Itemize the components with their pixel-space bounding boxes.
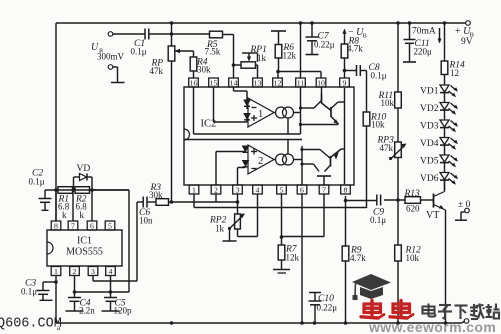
IC2 internal mid wire 2	[184, 139, 302, 141]
resistor R12	[395, 245, 402, 323]
svg-text:VD1: VD1	[420, 87, 439, 97]
wire C6 down to IC1 pin3	[93, 202, 137, 281]
label R13 620	[404, 189, 421, 214]
wire R8 node to IC2 pin9	[344, 71, 346, 79]
label VD5	[420, 157, 439, 167]
svg-text:10k: 10k	[371, 120, 385, 130]
svg-text:Q606.COM: Q606.COM	[0, 317, 62, 332]
label C10 0.22u	[317, 294, 338, 313]
label +UB 9V	[455, 26, 475, 47]
capacitor C6	[137, 197, 156, 208]
transistor Q2 internal	[301, 102, 345, 125]
diode op2 minus input	[238, 161, 249, 186]
wire R5 to IC2 pin14	[223, 35, 234, 79]
diode op2 plus input	[216, 146, 249, 185]
svg-text:VD3: VD3	[420, 122, 439, 132]
node rail IC2 pin6 line	[300, 321, 304, 325]
IC2 internal bus lower	[301, 146, 303, 185]
label -UB	[348, 27, 368, 40]
wire timing caps line	[75, 291, 130, 293]
svg-text:620: 620	[406, 204, 420, 214]
LED VD1	[440, 85, 458, 103]
IC1 pin 1	[51, 267, 61, 283]
node C7 rail	[310, 21, 314, 25]
wire C1 to R5	[149, 33, 210, 35]
svg-text:2.2n: 2.2n	[79, 306, 95, 316]
transistor Q3 internal	[302, 149, 345, 167]
label VD4	[420, 139, 439, 149]
IC1 pin 3	[88, 267, 98, 276]
resistor R14	[441, 61, 448, 85]
IC2 internal bus upper	[300, 87, 302, 134]
capacitor C2	[39, 190, 52, 210]
svg-text:3: 3	[236, 185, 240, 194]
logo char zi	[438, 305, 452, 319]
capacitor C1	[145, 29, 149, 40]
wire C9 to R13	[384, 199, 405, 201]
node pin3 junction	[236, 200, 240, 204]
IC1 pin 7	[68, 190, 78, 230]
label C7 0.22u	[314, 32, 335, 50]
IC2 pin 10	[316, 78, 326, 87]
resistor R7	[278, 237, 285, 269]
IC1 pin 6	[87, 190, 97, 230]
node R12 bottom rail	[396, 321, 400, 325]
IC2 pin 8	[341, 185, 351, 194]
IC1 pin 2	[70, 267, 80, 293]
node C11 rail	[408, 21, 412, 25]
logo char xia	[455, 306, 468, 320]
node IC1 pin1/C3	[54, 280, 58, 284]
node rail RP/R3 vertical	[170, 321, 174, 325]
label C3 0.1u	[21, 279, 37, 297]
node bus lower 1	[300, 148, 303, 151]
resistor R11	[395, 92, 402, 142]
svg-text:2: 2	[73, 267, 77, 276]
label C8 0.1u	[369, 63, 387, 81]
capacitor C9	[377, 195, 381, 206]
potentiometer RP3	[395, 142, 402, 245]
label 70mA with arrow	[412, 27, 442, 44]
label RP2 1k	[209, 216, 227, 234]
svg-text:4.7k: 4.7k	[347, 44, 363, 54]
diode op1 plus input	[214, 87, 251, 122]
arrow -UB	[342, 29, 346, 45]
IC1 pin 5	[105, 221, 115, 230]
wire pin1 down to rail	[55, 282, 57, 323]
svg-text:2: 2	[214, 185, 218, 194]
svg-text:0.1μ: 0.1μ	[371, 71, 387, 81]
LED VD2	[440, 103, 458, 121]
terminal UR input	[108, 32, 113, 37]
svg-text:1k: 1k	[257, 53, 267, 63]
power bar above R6	[271, 30, 286, 32]
wire IC2 pin7 to R7	[282, 194, 325, 237]
svg-text:220μ: 220μ	[414, 47, 433, 57]
transistor VT	[434, 192, 446, 211]
label R9 4.7k	[350, 246, 366, 264]
ground RP2	[223, 229, 237, 242]
diode VD	[74, 174, 93, 191]
node VT emitter rail	[444, 321, 448, 325]
IC2 pin 15	[209, 78, 219, 87]
svg-text:VD5: VD5	[420, 157, 439, 167]
RP2 wiper	[228, 214, 245, 231]
IC2 pin 4	[253, 185, 263, 194]
svg-text:2: 2	[258, 156, 263, 167]
label VD1	[420, 87, 439, 97]
potentiometer RP1	[234, 62, 258, 78]
capacitor C11	[403, 23, 416, 62]
label R3 30k	[149, 183, 163, 200]
label VD3	[420, 122, 439, 132]
wire rail to R14	[444, 23, 446, 61]
label R1 6.8k	[58, 195, 70, 221]
label R12 10k	[405, 246, 422, 264]
terminal input ground side	[108, 65, 113, 70]
label VD6	[420, 174, 439, 184]
label VD2	[420, 104, 439, 114]
svg-text:8: 8	[344, 185, 348, 194]
logo url www.eeworm.com	[368, 319, 496, 334]
IC2 pin 1	[189, 185, 199, 194]
capacitor C3	[37, 282, 57, 300]
svg-text:1: 1	[192, 185, 196, 194]
node R14 rail	[443, 21, 447, 25]
node RP top on rail	[170, 21, 174, 25]
IC2 pin 12	[273, 78, 283, 87]
resistor R3	[156, 199, 169, 206]
node C4 top	[73, 290, 77, 294]
RP3 wiper	[389, 144, 407, 161]
IC2 pin 5	[277, 185, 287, 194]
svg-text:k: k	[62, 210, 67, 220]
wire left frame from +UB rail to node A	[55, 23, 57, 221]
text Q606.COM	[0, 317, 62, 333]
RP wiper arrow	[175, 49, 194, 53]
wire top +UB supply rail	[56, 22, 466, 24]
node R8/C8/pin9	[343, 69, 347, 73]
svg-text:13: 13	[254, 78, 262, 87]
label R2 6.8k	[75, 195, 87, 221]
label R8 4.7k	[347, 37, 363, 54]
label R7 12k	[285, 245, 300, 263]
resistor R13	[405, 197, 421, 204]
node R1/R2	[72, 188, 76, 192]
wire IC2 pin2 stub	[215, 194, 217, 202]
svg-text:70mA: 70mA	[412, 27, 436, 37]
svg-text:0.1μ: 0.1μ	[29, 177, 45, 187]
wire R13 to VT base	[421, 199, 434, 201]
node junction C1 line / RP	[170, 32, 174, 36]
IC2 pin 2	[211, 185, 221, 194]
svg-text:12: 12	[274, 78, 282, 87]
label RP3 47k	[377, 136, 395, 154]
label C6 10n	[139, 208, 153, 226]
logo char zhan	[486, 304, 500, 319]
node R7 top	[280, 235, 284, 239]
label R14 12	[449, 61, 466, 79]
IC1 pin 8	[51, 190, 61, 230]
current source op1 output	[274, 107, 301, 134]
svg-text:VD2: VD2	[420, 104, 439, 114]
IC2 pin 3	[233, 185, 243, 194]
svg-text:VD4: VD4	[420, 139, 439, 149]
label UR 300mV	[91, 42, 125, 62]
resistor R5	[210, 31, 223, 38]
svg-text:B: B	[363, 33, 368, 40]
node RP1 left junction	[232, 63, 236, 67]
IC2 body	[184, 87, 354, 185]
node A junction R1/C2/IC1-pin8	[54, 188, 58, 192]
svg-text:9V: 9V	[461, 37, 473, 47]
svg-text:12k: 12k	[283, 51, 297, 61]
IC2 pin 11	[296, 78, 306, 87]
capacitor C8	[345, 65, 367, 76]
svg-text:VD6: VD6	[420, 174, 439, 184]
svg-text:11: 11	[297, 78, 305, 87]
label R11 10k	[378, 91, 395, 108]
svg-text:0.1μ: 0.1μ	[21, 287, 37, 297]
resistor R6	[275, 31, 282, 72]
svg-text:16: 16	[190, 78, 198, 87]
logo text chong 2	[390, 301, 413, 319]
svg-text:6: 6	[300, 185, 304, 194]
terminal bottom right	[464, 319, 469, 324]
wire C8 to R10	[366, 71, 368, 113]
resistor R1	[58, 187, 73, 194]
label C11 220u	[414, 39, 433, 57]
svg-text:30k: 30k	[197, 65, 211, 75]
node R2 right	[90, 188, 94, 192]
IC2 internal mid wire 1	[194, 133, 301, 135]
label R4 30k	[196, 58, 211, 75]
resistor R4	[190, 51, 197, 78]
svg-text:VD: VD	[77, 164, 91, 174]
svg-text:10n: 10n	[139, 216, 153, 226]
wire R3 node line	[169, 201, 238, 203]
label R5 7.5k	[205, 40, 221, 57]
label R10 10k	[370, 113, 387, 130]
svg-text:0.1μ: 0.1μ	[370, 215, 386, 225]
svg-text:14: 14	[230, 78, 238, 87]
resistor R8	[341, 44, 348, 71]
svg-text:7.5k: 7.5k	[205, 47, 221, 57]
svg-text:6: 6	[90, 221, 94, 230]
svg-text:0.1μ: 0.1μ	[131, 47, 147, 57]
node bus upper 1	[299, 106, 302, 109]
LED VD5	[440, 155, 458, 173]
resistor R9	[342, 201, 349, 324]
transistor Q1 internal	[301, 87, 332, 111]
label C9 0.1u	[370, 208, 386, 226]
LED VD3	[440, 120, 458, 138]
potentiometer RP	[168, 23, 175, 202]
IC2 internal right bus	[344, 88, 346, 184]
label C2 0.1u	[29, 169, 45, 187]
node rail R9	[344, 321, 348, 325]
svg-text:1k: 1k	[215, 224, 225, 234]
label C5 120p	[114, 299, 133, 316]
svg-text:8: 8	[54, 221, 58, 230]
capacitor C7	[306, 23, 319, 55]
IC1 pin 4	[106, 267, 116, 293]
logo text chong 1	[361, 301, 384, 319]
capacitor C10	[309, 293, 322, 324]
LED VD6	[440, 173, 458, 191]
node R6 bottom / pin12	[276, 70, 280, 74]
potentiometer RP2	[235, 194, 258, 237]
label VT	[426, 210, 439, 221]
node pin8 junction	[344, 199, 348, 203]
IC2 internal pin16 wire	[193, 87, 195, 134]
node bus lower 2	[300, 162, 303, 165]
svg-text:120p: 120p	[114, 306, 133, 316]
svg-text:MOS555: MOS555	[66, 247, 103, 258]
wire IC2 pin11 to rail	[300, 23, 302, 78]
terminal +9V supply	[466, 21, 471, 26]
svg-text:4.7k: 4.7k	[350, 253, 366, 263]
IC2 pin 14	[229, 78, 239, 87]
ground input	[111, 67, 125, 83]
svg-text:7: 7	[71, 221, 75, 230]
wire IC2 pin3 to RP2	[237, 194, 239, 214]
IC2 pin 16	[189, 78, 199, 87]
RP1 wiper	[242, 53, 258, 62]
svg-text:10k: 10k	[406, 253, 420, 263]
IC1 body	[47, 230, 122, 266]
svg-text:IC1: IC1	[77, 236, 92, 247]
op-amp 1	[248, 98, 274, 127]
svg-text:5: 5	[108, 221, 112, 230]
label R6 12k	[283, 43, 297, 61]
svg-text:1: 1	[258, 109, 263, 120]
svg-text:0.22μ: 0.22μ	[317, 303, 338, 313]
node R11 rail	[396, 21, 400, 25]
node pin11 rail	[299, 21, 303, 25]
svg-text:3: 3	[91, 267, 95, 276]
svg-text:10k: 10k	[381, 98, 395, 108]
node rail C10	[313, 321, 317, 325]
svg-text:1: 1	[54, 267, 58, 276]
current source op2 output	[274, 140, 302, 166]
capacitor C4	[66, 292, 84, 311]
wire IC2 pin5 to R7	[281, 194, 283, 237]
svg-text:47k: 47k	[150, 66, 164, 76]
label C1 0.1u	[131, 39, 147, 57]
svg-text:12: 12	[450, 68, 459, 78]
svg-text:4: 4	[109, 267, 113, 276]
wire R6 bottom to IC2 pin10	[278, 72, 321, 79]
IC2 pin 13	[253, 78, 263, 87]
svg-text:0.22μ: 0.22μ	[314, 40, 335, 50]
logo graduation cap	[352, 274, 391, 300]
diode op1 minus input	[234, 87, 251, 109]
svg-text:12k: 12k	[286, 253, 300, 263]
wire IC2 pin6 down to rail	[301, 194, 303, 323]
wire IC2 pin8 to C9	[346, 196, 377, 201]
svg-text:47k: 47k	[380, 143, 394, 153]
label RP 47k	[150, 59, 164, 77]
svg-text:30k: 30k	[149, 190, 163, 200]
svg-text:15: 15	[210, 78, 218, 87]
IC2 pin 7	[319, 185, 329, 194]
op-amp 2	[248, 145, 274, 174]
svg-text:300mV: 300mV	[97, 52, 125, 62]
LED VD4	[440, 138, 458, 156]
IC2 pin 6	[297, 185, 307, 194]
svg-text:7: 7	[322, 185, 326, 194]
svg-text:www.eeworm.com: www.eeworm.com	[368, 319, 496, 334]
ground R7	[273, 270, 290, 274]
wire IC2 pin1 to long lower line	[194, 194, 367, 208]
wire VT emitter down	[445, 210, 447, 323]
node R3/RP vertical	[170, 200, 174, 204]
transistor Q4 internal	[302, 164, 331, 185]
logo char zai	[470, 304, 484, 320]
svg-text:VT: VT	[426, 210, 439, 221]
label C4 2.2n	[79, 299, 95, 316]
label RP1 1k	[250, 45, 267, 63]
label IC2	[201, 119, 217, 130]
resistor R2	[75, 187, 90, 194]
svg-text:R13: R13	[404, 189, 421, 199]
wire bottom rail	[56, 322, 464, 324]
svg-text:9: 9	[343, 78, 347, 87]
label IC1 MOS555	[66, 236, 103, 258]
capacitor C5	[102, 292, 120, 311]
wire node A line	[45, 189, 129, 191]
wire UR to C1	[113, 33, 145, 35]
logo char dian	[423, 304, 436, 317]
node bus upper 2	[299, 123, 302, 126]
svg-text:5: 5	[280, 185, 284, 194]
resistor R10	[363, 112, 370, 208]
IC2 pin 9	[340, 78, 350, 87]
label VD	[77, 164, 91, 174]
svg-text:10: 10	[317, 78, 325, 87]
node C5 top	[109, 290, 113, 294]
svg-text:4: 4	[256, 185, 260, 194]
terminal output +-0	[455, 200, 471, 220]
wire rail to R11	[397, 23, 399, 92]
wire VD6 to VT collector	[444, 180, 446, 191]
wire R2 to cap line	[92, 190, 129, 292]
svg-text:k: k	[80, 210, 85, 220]
node RP3/R12 line at C9 wire	[396, 198, 400, 202]
